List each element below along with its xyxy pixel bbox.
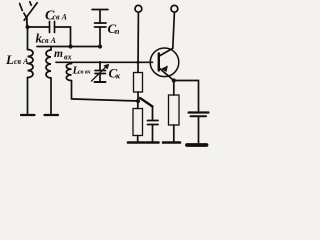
resistor R2 — [137, 101, 139, 109]
ground (R2 bottom bar) — [128, 141, 145, 144]
resistor R1 — [134, 73, 143, 93]
wire terminal2 to collector — [173, 12, 175, 48]
inductor L_sv.vx (coil 3) — [66, 62, 74, 99]
capacitor C_p (padder) with open bar terminal — [92, 10, 108, 47]
ground (coil1 bottom bar) — [21, 114, 35, 116]
wire C_svA to corner and down to node B — [55, 27, 71, 46]
node C_p junction — [98, 44, 102, 48]
label k_svA — [36, 31, 57, 46]
capacitor C2 — [189, 113, 209, 145]
node A (antenna junction) — [26, 25, 30, 29]
terminal 2 — [171, 5, 178, 12]
svg-text:св А: св А — [14, 57, 29, 66]
ground (C_k bottom bar) — [95, 81, 106, 83]
base rail wire y=62 — [56, 61, 153, 63]
label C_k — [109, 66, 122, 81]
wire R1 to junction — [137, 92, 139, 101]
svg-text:L: L — [5, 52, 14, 67]
inductor L_svA (coil 1) — [28, 27, 34, 114]
label C_svA — [45, 9, 68, 24]
label L_svA — [5, 52, 29, 67]
label m_vx — [54, 48, 72, 62]
svg-text:св вх: св вх — [78, 69, 92, 76]
transistor VT1 — [150, 48, 179, 81]
wire row y=46 (coil2 top to C_p) — [37, 46, 100, 48]
resistor R3 — [169, 95, 180, 125]
capacitor C3 — [148, 107, 159, 142]
antenna — [20, 2, 38, 27]
wire emitter to R3 — [173, 81, 175, 96]
variable capacitor C_k — [92, 61, 109, 82]
ground (C3 bottom bar) — [147, 141, 159, 144]
label C_p — [108, 21, 121, 36]
node base-rail cross dot — [136, 61, 139, 64]
capacitor C_svA — [50, 22, 55, 33]
node emitter junction — [172, 78, 176, 82]
terminal 1 — [135, 5, 142, 12]
inductor L_vx (coil 2, tuned) — [46, 47, 51, 115]
svg-text:св А: св А — [53, 13, 68, 22]
label L_sv.vx — [72, 65, 92, 77]
ground (coil2 bottom bar) — [45, 114, 59, 116]
svg-text:m: m — [54, 48, 63, 60]
svg-text:св А: св А — [42, 36, 57, 45]
wire emitter to C2 — [174, 81, 199, 112]
wire terminal1 down through base rail — [137, 12, 139, 72]
ground (R3 bottom bar) — [163, 141, 180, 144]
bottom bias rail from coil3 to junction — [74, 99, 138, 101]
wire junction diagonal to C3 — [140, 98, 153, 107]
ground (C2 bottom bar) — [187, 143, 207, 147]
node bias junction — [136, 99, 140, 103]
node B junction dot — [68, 44, 72, 48]
svg-text:п: п — [115, 27, 120, 36]
svg-text:вх: вх — [64, 53, 72, 62]
wire antenna to C_svA — [28, 26, 49, 28]
